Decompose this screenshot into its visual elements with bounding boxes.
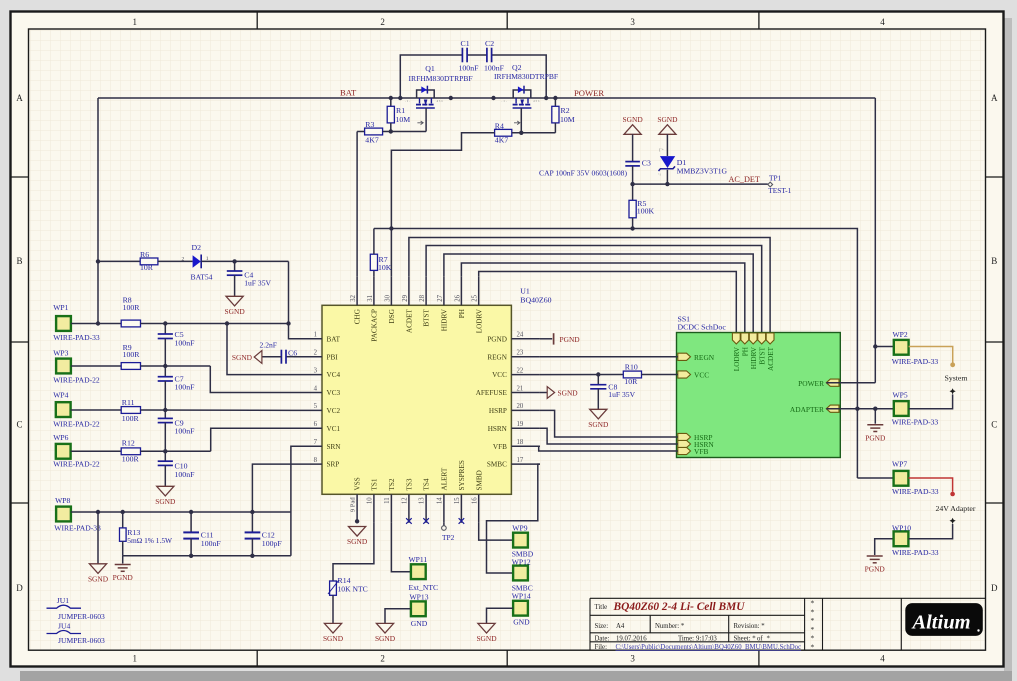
svg-text:100nF: 100nF — [175, 339, 196, 348]
svg-text:D: D — [991, 583, 998, 593]
wire WP4 row / resistor R11 100R — [71, 409, 122, 411]
svg-text:Title: Title — [595, 604, 608, 611]
resistor R2 10M — [554, 98, 556, 106]
wire pad WP11 — [411, 564, 426, 579]
svg-text:2: 2 — [380, 654, 385, 664]
svg-text:WIRE-PAD-33: WIRE-PAD-33 — [54, 524, 101, 533]
svg-text:WP2: WP2 — [893, 330, 908, 339]
resistor R7 10K — [373, 270, 375, 276]
svg-text:SGND: SGND — [347, 537, 368, 546]
ground PGND below R13 — [115, 564, 131, 566]
svg-text:10: 10 — [367, 497, 374, 504]
svg-text:Q2: Q2 — [512, 63, 522, 72]
svg-text:12: 12 — [402, 497, 409, 504]
svg-text:· ¹ ·: · ¹ · — [405, 99, 411, 104]
svg-text:3: 3 — [314, 367, 318, 374]
Altium logo — [905, 603, 983, 636]
wire 24V adapter red — [909, 478, 953, 492]
svg-text:C:\Users\Public\Documents\Alti: C:\Users\Public\Documents\Altium\BQ40Z60… — [616, 644, 802, 651]
svg-text:SYSPRES: SYSPRES — [458, 460, 466, 490]
svg-text:BAT: BAT — [340, 88, 357, 98]
resistor R6 10R — [140, 258, 158, 265]
svg-text:A: A — [991, 93, 998, 103]
svg-text:WIRE-PAD-22: WIRE-PAD-22 — [53, 376, 100, 385]
svg-text:PBI: PBI — [327, 353, 339, 361]
svg-text:WIRE-PAD-33: WIRE-PAD-33 — [892, 417, 939, 426]
svg-text:SGND: SGND — [375, 634, 396, 643]
svg-text:*: * — [811, 634, 815, 643]
svg-text:PGND: PGND — [113, 573, 134, 582]
svg-text:24V Adapter: 24V Adapter — [936, 504, 976, 513]
svg-text:19.07.2016: 19.07.2016 — [616, 636, 647, 643]
svg-text:SGND: SGND — [225, 307, 246, 316]
svg-text:HIDRV: HIDRV — [750, 346, 758, 369]
svg-text:WP8: WP8 — [55, 496, 70, 505]
wire to VC1 pin6 — [211, 428, 294, 451]
svg-text:ACDET: ACDET — [767, 346, 775, 371]
test point TP2 on ALERT pin14 — [443, 523, 445, 526]
wire pad WP8 — [56, 507, 71, 522]
svg-text:WP3: WP3 — [53, 349, 68, 358]
capacitor C1 100nF — [461, 48, 463, 63]
svg-text:WP1: WP1 — [53, 303, 68, 312]
wire to VC4 pin3 — [227, 324, 294, 375]
svg-text:⁴ ⁵ ⁶: ⁴ ⁵ ⁶ — [533, 99, 540, 104]
svg-text:BAT54: BAT54 — [191, 273, 213, 282]
svg-text:C: C — [991, 420, 997, 430]
ground PGND below WP5 — [867, 424, 883, 426]
svg-text:22: 22 — [517, 367, 524, 374]
ground SGND below WP13 — [376, 623, 393, 633]
svg-text:POWER: POWER — [574, 88, 604, 98]
sheet symbol SS1 DCDC SchDoc — [677, 333, 841, 458]
svg-text:3: 3 — [630, 654, 635, 664]
svg-text:WIRE-PAD-33: WIRE-PAD-33 — [892, 487, 939, 496]
capacitor C8 1uF 35V — [597, 375, 599, 385]
wire WP3 row / resistor R9 100R — [71, 365, 121, 367]
svg-text:ALERT: ALERT — [441, 467, 449, 490]
svg-text:File:: File: — [595, 644, 608, 651]
svg-text:BTST: BTST — [423, 308, 431, 326]
svg-text:VCC: VCC — [492, 371, 507, 379]
svg-text:2.2nF: 2.2nF — [260, 341, 278, 350]
wire WP8 row (SRP net) — [71, 511, 291, 513]
wire pin18 VFB — [539, 446, 678, 451]
svg-text:TP2: TP2 — [442, 533, 455, 542]
svg-text:WP14: WP14 — [512, 591, 531, 600]
svg-text:10R: 10R — [624, 377, 638, 386]
svg-text:28: 28 — [419, 294, 426, 301]
ground SGND below C10 — [157, 486, 174, 496]
svg-text:WP4: WP4 — [53, 390, 68, 399]
svg-text:AFEFUSE: AFEFUSE — [476, 389, 508, 397]
svg-text:PGND: PGND — [865, 565, 886, 574]
wire DSG pin30 to R4 — [391, 133, 494, 277]
svg-text:WP9: WP9 — [512, 524, 527, 533]
wire POWER port to vertical — [826, 382, 875, 384]
ground SGND below WP8 — [89, 564, 106, 574]
svg-text:26: 26 — [454, 294, 461, 301]
wire VSS pin9 to SGND — [355, 519, 359, 523]
svg-text:Sheet: *: Sheet: * — [734, 636, 757, 643]
resistor R3 4K7 — [357, 131, 365, 133]
svg-text:8: 8 — [314, 457, 318, 464]
ground PGND below WP10 — [867, 555, 883, 557]
wire C1/C2 top loop — [400, 55, 462, 98]
svg-text:CHG: CHG — [354, 309, 362, 324]
svg-text:WP13: WP13 — [410, 593, 429, 602]
svg-text:27: 27 — [437, 294, 444, 301]
svg-text:PACKACP: PACKACP — [371, 309, 379, 342]
svg-text:10M: 10M — [396, 115, 411, 124]
svg-text:11: 11 — [384, 497, 391, 504]
svg-text:C2: C2 — [485, 39, 494, 48]
svg-text:A4: A4 — [616, 623, 625, 630]
wire AC_DET — [633, 183, 768, 185]
ground SGND below WP14 — [478, 623, 495, 633]
svg-text:DSG: DSG — [388, 309, 396, 323]
wire pin24 PGND — [540, 338, 552, 340]
U1 pins 24-17 right — [511, 338, 540, 340]
sheet shadow — [1004, 18, 1012, 673]
svg-text:Ext_NTC: Ext_NTC — [409, 583, 439, 592]
svg-text:*: * — [811, 607, 815, 616]
svg-text:VSS: VSS — [354, 477, 362, 490]
svg-text:100nF: 100nF — [175, 383, 196, 392]
resistor R4 4K7 — [495, 129, 512, 136]
svg-text:24: 24 — [517, 332, 524, 339]
wire pad WP13 — [411, 601, 426, 616]
svg-text:· ¹ ·: · ¹ · — [501, 99, 507, 104]
wire pin16 SMBD to WP9 — [479, 523, 513, 540]
wire PGND stub — [122, 556, 124, 564]
svg-text:3: 3 — [630, 17, 635, 27]
svg-text:WIRE-PAD-33: WIRE-PAD-33 — [53, 333, 100, 342]
diode D2 BAT54 — [193, 255, 201, 268]
svg-text:VCC: VCC — [694, 371, 709, 380]
resistor R1 10M — [390, 98, 392, 106]
wire CHG pin32 to R3 — [356, 132, 358, 277]
capacitor C6 2.2nF / pin2 PBI — [286, 356, 294, 358]
svg-text:100K: 100K — [637, 207, 655, 216]
svg-text:9:17:03: 9:17:03 — [696, 636, 717, 643]
wire D2 node down to pin1 node — [288, 261, 290, 323]
svg-text:100nF: 100nF — [175, 470, 196, 479]
svg-text:C5: C5 — [175, 330, 184, 339]
svg-text:WIRE-PAD-33: WIRE-PAD-33 — [892, 357, 939, 366]
svg-text:*: * — [811, 643, 815, 652]
svg-text:B: B — [16, 256, 22, 266]
svg-text:4: 4 — [880, 17, 885, 27]
wire pin20 HSRP — [540, 410, 678, 437]
capacitor C9 100nF — [164, 410, 166, 418]
svg-text:PGND: PGND — [560, 335, 581, 344]
wire WP10 to 24V Adapter — [909, 524, 953, 539]
svg-text:LODRV: LODRV — [733, 346, 741, 371]
svg-text:WP11: WP11 — [409, 555, 428, 564]
wire POWER vertical to SS1 POWER — [874, 98, 876, 383]
svg-text:2: 2 — [380, 17, 385, 27]
wire pad WP9 — [513, 533, 528, 548]
svg-text:JU4: JU4 — [58, 621, 70, 630]
ground SGND below C8 — [590, 409, 607, 419]
svg-text:4K7: 4K7 — [365, 135, 379, 144]
svg-text:VC4: VC4 — [327, 371, 341, 379]
svg-text:R2: R2 — [561, 106, 570, 115]
svg-text:CAP 100nF 35V 0603(1608): CAP 100nF 35V 0603(1608) — [539, 169, 627, 178]
svg-text:WIRE-PAD-33: WIRE-PAD-33 — [892, 548, 939, 557]
svg-text:PH: PH — [742, 347, 750, 356]
svg-text:ADAPTER: ADAPTER — [790, 405, 824, 414]
svg-text:Size:: Size: — [595, 623, 609, 630]
wire SRP pin8 — [252, 464, 293, 531]
svg-text:7: 7 — [314, 439, 318, 446]
svg-text:TEST-1: TEST-1 — [768, 186, 791, 195]
svg-text:ACDET: ACDET — [406, 309, 414, 334]
svg-text:25: 25 — [472, 294, 479, 301]
wire to BAT pin1 — [289, 324, 294, 339]
svg-text:SGND: SGND — [88, 574, 109, 583]
svg-text:SMBD: SMBD — [475, 470, 483, 490]
svg-text:100R: 100R — [122, 455, 140, 464]
svg-text:VFB: VFB — [694, 447, 708, 456]
wire pad WP1 — [56, 316, 71, 331]
wire WP10 to PGND — [875, 539, 894, 555]
svg-text:D: D — [16, 583, 23, 593]
wire PGND stub WP5 — [874, 409, 876, 424]
ground SGND below C4 — [226, 296, 243, 306]
power port PGND pin24 — [553, 333, 555, 344]
svg-text:14: 14 — [437, 497, 444, 504]
capacitor C3 — [632, 134, 634, 161]
svg-text:R6: R6 — [140, 250, 149, 259]
svg-text:R3: R3 — [365, 120, 374, 129]
svg-text:DCDC SchDoc: DCDC SchDoc — [678, 323, 727, 332]
svg-text:IRFHM830DTRPBF: IRFHM830DTRPBF — [494, 72, 558, 81]
svg-text:VFB: VFB — [493, 443, 507, 451]
svg-text:TP1: TP1 — [769, 174, 782, 183]
svg-text:of: of — [757, 636, 763, 643]
svg-text:Altium: Altium — [910, 612, 970, 634]
border zone ticks — [256, 12, 258, 30]
wire BAT/POWER rail — [98, 97, 875, 99]
svg-text:AC_DET: AC_DET — [729, 175, 760, 184]
svg-text:31: 31 — [367, 295, 374, 302]
svg-text:SMBC: SMBC — [487, 461, 507, 469]
svg-text:SGND: SGND — [558, 389, 579, 398]
svg-text:100R: 100R — [123, 350, 141, 359]
ground SGND below VSS — [349, 527, 366, 537]
svg-text:29: 29 — [402, 294, 409, 301]
port marker 24V Adapter — [950, 518, 956, 524]
svg-text:U1: U1 — [520, 287, 530, 296]
svg-text:20: 20 — [517, 403, 524, 410]
svg-text:Date:: Date: — [595, 636, 610, 643]
svg-text:100nF: 100nF — [201, 539, 222, 548]
svg-text:10K: 10K — [378, 263, 392, 272]
wire pin19 HSRN — [540, 428, 678, 444]
svg-text:TS1: TS1 — [371, 478, 379, 490]
svg-text:VC2: VC2 — [327, 407, 341, 415]
svg-text:10R: 10R — [140, 263, 154, 272]
svg-text:SGND: SGND — [323, 634, 344, 643]
resistor R5 100K — [629, 200, 636, 218]
svg-text:VC3: VC3 — [327, 389, 341, 397]
svg-text:MMBZ3V3T1G: MMBZ3V3T1G — [677, 167, 728, 176]
ground SGND — [624, 125, 641, 135]
svg-text:4: 4 — [880, 654, 885, 664]
svg-text:17: 17 — [517, 457, 524, 464]
svg-text:GND: GND — [513, 617, 530, 626]
svg-text:19: 19 — [517, 421, 524, 428]
wire pad WP4 — [56, 402, 71, 417]
svg-text:SGND: SGND — [155, 497, 176, 506]
svg-text:R1: R1 — [396, 106, 405, 115]
svg-text:SGND: SGND — [476, 634, 497, 643]
wire pin21 AFEFUSE — [540, 392, 547, 394]
svg-text:HSRN: HSRN — [488, 425, 508, 433]
capacitor C12 100pF — [245, 531, 261, 533]
svg-text:System: System — [945, 374, 968, 383]
capacitor C11 100nF — [190, 512, 192, 532]
wire pad WP2 — [894, 340, 909, 355]
svg-text:PH: PH — [458, 309, 466, 318]
wire pad WP12 — [513, 566, 528, 581]
svg-text:B: B — [991, 256, 997, 266]
svg-text:R4: R4 — [495, 121, 504, 130]
wire pad WP5 — [894, 401, 909, 416]
svg-text:*: * — [811, 599, 815, 608]
svg-text:LODRV: LODRV — [475, 308, 483, 333]
resistor R13 5mOhm — [122, 512, 124, 528]
svg-text:*: * — [767, 636, 771, 643]
wire ADAPTER rail — [374, 229, 858, 479]
wire SGND stub — [97, 512, 99, 564]
svg-text:15: 15 — [454, 497, 461, 504]
svg-text:5mΩ 1% 1.5W: 5mΩ 1% 1.5W — [127, 536, 172, 545]
svg-text:21: 21 — [517, 385, 524, 392]
SS1 top sheet entries — [732, 333, 740, 344]
svg-text:SGND: SGND — [623, 115, 644, 124]
svg-text:1: 1 — [314, 332, 317, 339]
svg-text:9 Pad: 9 Pad — [350, 497, 357, 513]
capacitor C2 100nF — [486, 48, 488, 63]
U1 pins 9-16 bottom — [356, 494, 358, 521]
svg-text:Time:: Time: — [678, 636, 694, 643]
resistor R14 10K NTC — [330, 581, 337, 595]
svg-text:4K7: 4K7 — [495, 135, 509, 144]
U1 pins 1-8 left — [294, 338, 323, 340]
wire WP6 row / resistor R12 100R — [71, 450, 122, 452]
svg-text:JU1: JU1 — [57, 596, 69, 605]
svg-text:WP6: WP6 — [53, 433, 68, 442]
svg-text:*: * — [811, 625, 815, 634]
svg-text:1uF 35V: 1uF 35V — [608, 390, 635, 399]
svg-text:WP10: WP10 — [892, 524, 911, 533]
svg-text:GND: GND — [411, 619, 428, 628]
wire pad WP10 — [894, 531, 909, 546]
title block — [590, 598, 986, 650]
wire WP7 left — [857, 477, 894, 479]
ground SGND below R14 — [324, 623, 341, 633]
svg-text:JUMPER-0603: JUMPER-0603 — [58, 636, 105, 645]
svg-text:REGN: REGN — [694, 353, 715, 362]
svg-text:23: 23 — [517, 350, 524, 357]
test point TP1 — [768, 182, 773, 187]
svg-text:IRFHM830DTRPBF: IRFHM830DTRPBF — [409, 74, 473, 83]
svg-text:100R: 100R — [123, 303, 141, 312]
transistor Q2 IRFHM830DTRPBF — [513, 90, 531, 98]
svg-text:32: 32 — [350, 294, 357, 301]
svg-text:2: 2 — [314, 350, 318, 357]
wire WP1 row / resistor R8 100R — [71, 323, 121, 325]
svg-text:Γ⁺: Γ⁺ — [659, 148, 665, 153]
svg-text:*: * — [811, 616, 815, 625]
svg-text:WP5: WP5 — [893, 391, 908, 400]
svg-text:SGND: SGND — [588, 420, 609, 429]
wire WP5 to System — [909, 394, 953, 408]
svg-text:C6: C6 — [288, 349, 297, 358]
wire pad WP14 — [513, 601, 528, 616]
svg-text:18: 18 — [517, 439, 524, 446]
svg-text:4: 4 — [314, 385, 318, 392]
svg-text:BQ40Z60: BQ40Z60 — [520, 296, 551, 305]
svg-text:10M: 10M — [560, 115, 575, 124]
wire pin23 REGN — [540, 356, 678, 358]
svg-text:16: 16 — [471, 497, 478, 504]
wire pad WP6 — [56, 444, 71, 459]
svg-text:TS3: TS3 — [406, 478, 414, 490]
wires pins 29-25 to SS1 ports — [409, 238, 770, 334]
svg-text:2: 2 — [182, 257, 185, 263]
svg-text:30: 30 — [384, 294, 391, 301]
svg-text:HSRP: HSRP — [489, 407, 507, 415]
transistor Q1 IRFHM830DTRPBF — [417, 90, 435, 98]
capacitor C4 1uF 35V — [234, 261, 236, 270]
wire to VC3 pin4 — [210, 366, 293, 393]
ground SGND — [659, 125, 676, 135]
SS1 left sheet entries — [678, 353, 691, 360]
svg-text:BQ40Z60 2-4 Li- Cell BMU: BQ40Z60 2-4 Li- Cell BMU — [613, 601, 746, 613]
svg-text:R14: R14 — [338, 576, 351, 585]
no-connect — [459, 518, 465, 524]
capacitor C7 100nF — [164, 366, 166, 376]
svg-text:6: 6 — [314, 421, 318, 428]
svg-text:POWER: POWER — [798, 379, 824, 388]
svg-text:100pF: 100pF — [262, 539, 283, 548]
SS1 right sheet entries — [826, 379, 839, 386]
svg-text:BTST: BTST — [759, 346, 767, 364]
svg-text:TS4: TS4 — [423, 478, 431, 490]
junction dots — [389, 96, 393, 100]
svg-text:13: 13 — [419, 497, 426, 504]
svg-text:⁴ ⁵ ⁶: ⁴ ⁵ ⁶ — [437, 99, 444, 104]
svg-text:C: C — [16, 420, 22, 430]
svg-text:SGND: SGND — [657, 115, 678, 124]
wire WP13 to SGND — [385, 609, 411, 624]
svg-text:5: 5 — [314, 403, 318, 410]
svg-text:A: A — [16, 93, 23, 103]
no-connect — [423, 518, 429, 524]
wire pad WP3 — [56, 359, 71, 374]
svg-text:1uF 35V: 1uF 35V — [244, 278, 271, 287]
diode D1 MMBZ3V3T1G — [666, 134, 668, 156]
svg-text:10K NTC: 10K NTC — [338, 585, 368, 594]
svg-text:WIRE-PAD-22: WIRE-PAD-22 — [53, 420, 100, 429]
svg-text:1: 1 — [132, 654, 137, 664]
svg-text:Number: *: Number: * — [655, 623, 685, 630]
power port SGND pin21 — [547, 387, 554, 399]
